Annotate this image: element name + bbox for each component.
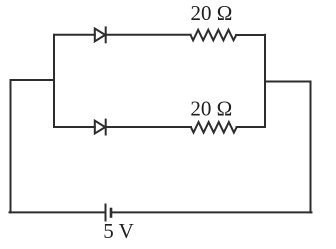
resistor R2 20 ohm [191, 122, 237, 133]
svg-text:20 Ω: 20 Ω [190, 97, 232, 121]
wire bottom branch middle [106, 126, 191, 128]
battery cell 5V long plate [105, 205, 107, 221]
wire mid-right connector [265, 81, 311, 83]
wire right bus vertical [264, 35, 266, 127]
wire right outer vertical [310, 82, 312, 213]
diode D2 [95, 120, 106, 135]
wire bottom left segment [10, 211, 105, 213]
resistor R1 20 ohm [191, 30, 237, 41]
wire bottom branch right [237, 126, 265, 128]
wire top branch left [54, 34, 95, 36]
wire top branch middle [106, 34, 191, 36]
wire bottom right segment [112, 211, 312, 213]
wire left bus vertical [53, 35, 55, 127]
wire mid-left connector [11, 79, 55, 81]
diode D1 [95, 27, 106, 42]
svg-text:5 V: 5 V [103, 219, 134, 243]
svg-text:20 Ω: 20 Ω [191, 1, 233, 25]
battery cell 5V short plate [110, 209, 113, 217]
wire bottom branch left [54, 126, 95, 128]
wire top branch right [236, 34, 265, 36]
wire left outer vertical [10, 80, 12, 212]
